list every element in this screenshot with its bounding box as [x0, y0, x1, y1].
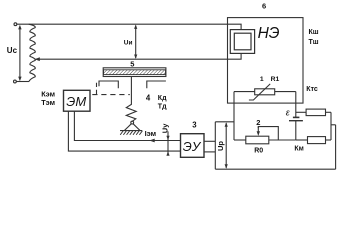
pivot triangle — [124, 124, 140, 131]
terminal bottom-left — [14, 80, 17, 83]
svg-text:6: 6 — [262, 2, 266, 11]
wire R1 right — [275, 91, 296, 93]
wire bridge left vertical — [233, 92, 235, 140]
wire L to bridge left — [215, 121, 234, 123]
pivot joint circle — [131, 121, 134, 124]
arrow Ui (measure) — [135, 26, 137, 58]
svg-text:Тд: Тд — [158, 104, 167, 111]
ground line — [120, 130, 142, 132]
spring — [126, 104, 136, 121]
dashed mechanical link horizontal — [92, 94, 130, 96]
ground hatching — [120, 131, 142, 135]
svg-text:ЭМ: ЭМ — [66, 94, 86, 109]
svg-text:Ктс: Ктс — [306, 86, 318, 93]
svg-text:Км: Км — [294, 146, 303, 153]
potentiometer R (voltage divider) — [29, 24, 36, 81]
wire right bracket vertical — [330, 112, 332, 140]
svg-text:ε: ε — [286, 107, 291, 117]
rheostat R0 body — [246, 136, 269, 144]
svg-text:4: 4 — [146, 93, 151, 102]
arrowhead Uu up — [166, 151, 169, 155]
wire R0 left — [234, 139, 246, 141]
svg-text:5: 5 — [130, 60, 134, 69]
svg-text:Тэм: Тэм — [41, 98, 55, 107]
svg-text:Кд: Кд — [158, 95, 167, 102]
arrowhead Uc down — [18, 77, 21, 82]
wire outer right vertical — [335, 125, 337, 169]
wire bottom rail — [215, 168, 335, 170]
wire top rail to NE — [17, 24, 241, 29]
svg-text:НЭ: НЭ — [258, 25, 280, 42]
battery cell short bar — [293, 116, 300, 118]
svg-text:Тш: Тш — [309, 39, 319, 46]
wire EM down left leg — [68, 111, 180, 151]
dashed mechanical link vertical — [96, 83, 98, 94]
svg-text:Uу: Uу — [160, 123, 169, 133]
arrowhead Up down — [225, 164, 228, 168]
enclosure box 6 (thermostat) — [228, 18, 304, 104]
svg-text:3: 3 — [192, 120, 197, 129]
wire bridge right vertical upper — [295, 92, 297, 118]
terminal top-left — [14, 23, 17, 26]
wire EM down right leg — [74, 111, 180, 140]
wire EU output lower stub — [204, 151, 215, 153]
heater element NE symbol (nested squares) — [230, 30, 254, 54]
arrowhead wiper left — [35, 57, 40, 61]
electrode 4 left segment — [99, 81, 118, 88]
svg-text:R1: R1 — [271, 76, 280, 83]
thermistor R1 body — [255, 89, 275, 95]
svg-text:1: 1 — [260, 76, 264, 83]
amplifier EU box — [181, 134, 205, 158]
wire shunt top right stub — [326, 111, 332, 113]
arrow Uu measure line — [167, 131, 169, 155]
svg-text:Iэм: Iэм — [145, 129, 157, 138]
svg-text:Кш: Кш — [309, 29, 319, 36]
electrode 4 right segment — [147, 81, 166, 88]
shunt resistor Ksh body top — [306, 109, 325, 116]
arrow Up measure line — [225, 123, 227, 168]
wire bridge right vertical lower — [295, 121, 297, 140]
arrow Uc (voltage between terminals) — [19, 27, 21, 80]
arrowhead Ui down — [134, 55, 137, 59]
wire R1 left — [234, 91, 255, 93]
capacitor plate 5 (hatched moving plate) — [103, 68, 166, 77]
svg-text:ЭУ: ЭУ — [183, 139, 202, 154]
battery cell long bar — [289, 120, 303, 122]
rheostat R0 wiper — [258, 127, 278, 140]
svg-text:Uи: Uи — [124, 40, 133, 47]
svg-text:R0: R0 — [254, 148, 263, 155]
rod plate to spring — [130, 77, 132, 105]
wire bottom terminal to potentiometer — [16, 81, 29, 83]
wire output vertical — [214, 122, 216, 169]
svg-text:Uc: Uc — [7, 46, 18, 55]
wire to shunt resistor bottom — [296, 139, 308, 141]
arrowhead Uu down — [166, 136, 169, 140]
wire to shunt resistor top — [296, 111, 306, 113]
arrowhead Ui up — [134, 25, 137, 29]
svg-text:Uр: Uр — [216, 141, 225, 151]
wire EU output upper stub — [204, 140, 215, 142]
svg-text:2: 2 — [256, 118, 260, 127]
arrowhead R0 wiper down — [257, 131, 260, 136]
shunt resistor Km body bottom — [308, 137, 326, 144]
thermistor R1 diagonal — [249, 84, 270, 100]
wire bracket mid stub — [331, 124, 336, 126]
wire shunt bottom right stub — [326, 139, 332, 141]
electromagnet EM box — [64, 90, 91, 111]
arrowhead Iem left — [149, 139, 154, 143]
arrowhead Up up — [225, 122, 228, 126]
arrowhead Uc up — [18, 25, 21, 30]
wire R0 right — [269, 139, 296, 141]
wiper wire to NE bottom — [36, 54, 242, 60]
